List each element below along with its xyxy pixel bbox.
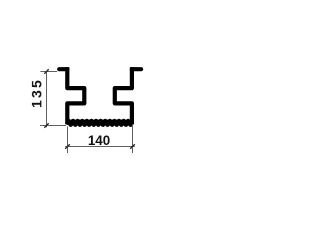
135 dim: bottom extension line (40, 125, 66, 127)
tick 135 bottom (44, 123, 48, 127)
135 dim: top extension line (40, 71, 57, 73)
oblique tick marks (44, 69, 135, 149)
left top flange stub (59, 67, 67, 71)
left wall with inward step (67, 67, 84, 124)
tick 140 left (65, 144, 70, 149)
140 dim: left extension line (67, 127, 69, 154)
tick 135 top (44, 69, 48, 73)
profile outline (aluminium profile cross-section) (59, 67, 141, 124)
dimension lines (40, 72, 135, 154)
tick 140 right (130, 144, 135, 149)
svg-text:135: 135 (28, 78, 44, 108)
web top edge flattening bar (67, 120, 133, 122)
140 dim: dimension line (65, 146, 135, 148)
right wall with inward step (115, 67, 132, 124)
serrated bottom web (wavy knurled line) (67, 121, 131, 125)
135 dim: dimension line (46, 72, 48, 128)
140 dim: right extension line (132, 125, 134, 154)
right top flange stub (132, 67, 141, 71)
svg-text:140: 140 (88, 133, 110, 148)
